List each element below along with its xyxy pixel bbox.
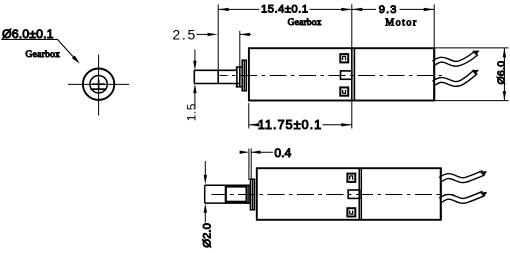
svg-text:2.5: 2.5 — [172, 27, 195, 43]
svg-text:15.4±0.1: 15.4±0.1 — [261, 4, 308, 16]
shaft step line — [217, 70, 219, 83]
dim 0.4 — [240, 149, 274, 181]
svg-text:Gearbox: Gearbox — [288, 18, 322, 28]
terminal square lower (bottom) — [347, 208, 355, 216]
bottom view shaft Ø2.0 — [205, 185, 251, 203]
shaft flat chord — [91, 88, 107, 90]
gearbox+motor body — [249, 48, 434, 100]
flange plate (bottom) — [250, 179, 254, 210]
dim 9.3 — [352, 4, 434, 48]
flange plate — [240, 60, 247, 91]
center plus mark — [93, 80, 105, 89]
svg-text:Gearbox: Gearbox — [26, 50, 61, 60]
outer circle (gearbox housing) — [83, 69, 114, 100]
svg-text:1.5: 1.5 — [185, 103, 199, 121]
dim 2.5 — [172, 27, 251, 67]
svg-text:11.75±0.1: 11.75±0.1 — [258, 117, 322, 132]
svg-text:Motor: Motor — [385, 17, 417, 28]
motor right edge redraw — [433, 48, 435, 100]
horizontal centerline — [68, 83, 129, 85]
svg-text:0.4: 0.4 — [274, 146, 291, 160]
extension line at flange face — [239, 31, 241, 67]
inner circle (bearing boss) — [90, 76, 107, 93]
wire lower (bottom view) — [441, 192, 488, 201]
dim 1.5 — [185, 50, 199, 122]
washer 0.4 — [247, 186, 249, 204]
svg-text:9.3: 9.3 — [379, 4, 397, 16]
svg-text:Ø2.0: Ø2.0 — [202, 223, 214, 248]
boundary lines (bottom) — [358, 168, 360, 220]
bottom view centerline — [212, 194, 454, 196]
washer stack — [237, 67, 240, 87]
vertical centerline — [98, 55, 100, 116]
end view circle group — [68, 55, 129, 116]
dim Ø6.0 (right) — [434, 48, 508, 101]
center tab — [341, 71, 352, 79]
dim 11.75±0.1 — [249, 101, 352, 129]
leader underline and arrow — [1, 39, 77, 60]
gearbox/motor boundary lines — [351, 48, 353, 100]
wire upper (bottom view) — [441, 171, 487, 180]
terminal square upper (bottom) — [347, 174, 355, 182]
extension line left (shaft step) — [217, 4, 219, 70]
motor right edge redraw (bottom) — [440, 168, 442, 220]
wire upper (top view) — [434, 51, 480, 64]
body (bottom view) — [257, 168, 441, 220]
center tab (bottom) — [348, 190, 359, 198]
end view: leader text Ø6.0±0.1 — [1, 27, 80, 63]
dim Ø2.0 — [204, 161, 207, 223]
top view centerline — [220, 75, 447, 77]
terminal square upper — [340, 54, 348, 62]
wire lower (top view) — [434, 70, 479, 84]
washer step 0.4 — [237, 67, 240, 87]
knurled pinion section — [226, 187, 247, 202]
dim 15.4±0.1 — [218, 4, 352, 70]
top view shaft — [194, 67, 240, 87]
terminal square lower — [340, 87, 348, 95]
svg-text:Ø6.0: Ø6.0 — [495, 61, 507, 85]
